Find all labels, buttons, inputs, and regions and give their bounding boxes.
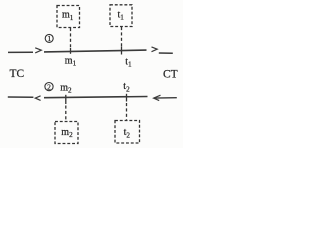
top wire right arrowhead > <box>152 47 158 52</box>
svg-text:1: 1 <box>47 34 51 43</box>
top wire left stub <box>8 51 33 53</box>
dashed connector t2 <box>126 94 128 102</box>
dashed connector m2 <box>65 95 67 104</box>
box t1 <box>110 5 132 27</box>
box t2 <box>115 121 140 144</box>
svg-text:TC: TC <box>10 68 25 80</box>
bottom wire left arrowhead < <box>35 96 40 101</box>
top wire right tail <box>159 52 173 54</box>
bottom wire left stub <box>8 96 34 98</box>
circled 1 <box>45 34 53 43</box>
bottom wire right arrow <- <box>154 95 177 100</box>
circled 2 <box>45 82 53 91</box>
dashed connector t1 <box>121 27 123 47</box>
box m1 <box>57 6 80 28</box>
top wire left arrowhead > <box>35 48 41 53</box>
box m2 <box>55 122 78 144</box>
bottom wire main <box>44 97 148 98</box>
top wire main <box>44 50 147 52</box>
svg-text:CT: CT <box>163 68 178 80</box>
dashed connector m1 <box>70 28 72 48</box>
svg-text:2: 2 <box>47 82 51 91</box>
